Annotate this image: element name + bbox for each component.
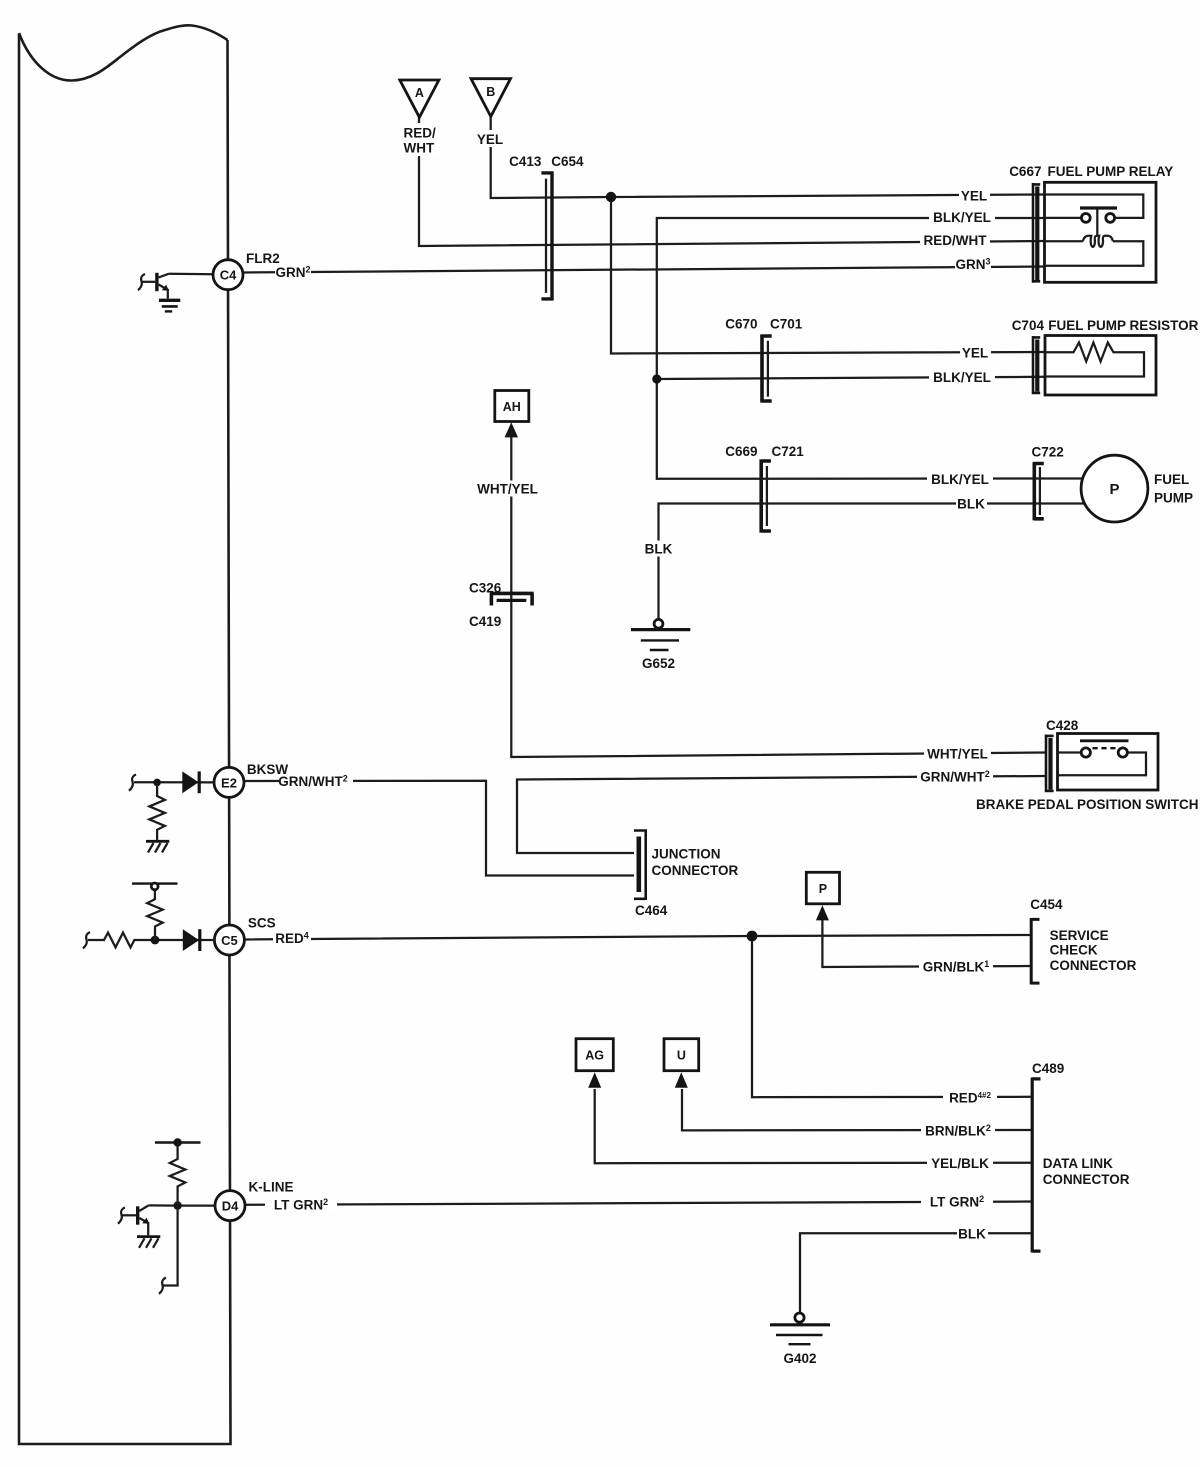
svg-text:BLK/YEL: BLK/YEL — [933, 370, 991, 385]
wire BLK/YEL branch to fuel pump resistor — [657, 377, 1045, 379]
wire LT GRN2 from D4 to data link connector — [246, 1202, 1032, 1205]
wire (E2 input stub) — [134, 781, 157, 783]
wire label GRN/WHT2 (brake switch) — [917, 769, 993, 785]
triangle connector B — [471, 79, 511, 117]
svg-text:C4: C4 — [220, 268, 237, 283]
svg-text:C701: C701 — [770, 317, 803, 332]
svg-text:B: B — [486, 85, 495, 99]
wire label BLK (DLC) — [957, 1226, 988, 1242]
continuation hook (C5 wire end) — [83, 932, 90, 948]
connector C704 bracket — [1033, 336, 1040, 394]
wire label WHT/YEL (AH wire) — [474, 481, 541, 497]
svg-text:BRN/BLK2: BRN/BLK2 — [925, 1123, 991, 1139]
svg-text:GRN3: GRN3 — [955, 257, 990, 273]
wire GRN/BLK1 from P arrow to service check connector — [822, 919, 1031, 967]
junction dot YEL — [606, 192, 616, 202]
svg-text:YEL: YEL — [962, 346, 988, 361]
pin E2 — [214, 767, 244, 797]
svg-text:A: A — [415, 86, 424, 100]
box AG with arrow — [576, 1039, 613, 1088]
svg-text:C326: C326 — [469, 580, 502, 595]
pin C5 — [214, 925, 244, 955]
transistor Q2 at pin D4 — [118, 1205, 178, 1235]
wire YEL/BLK from AG arrow to data link connector — [595, 1089, 1032, 1163]
svg-text:U: U — [677, 1049, 686, 1063]
supply rail bar with contact circle (C5 pull-up) — [132, 882, 178, 884]
svg-text:PUMP: PUMP — [1154, 491, 1193, 506]
wire D4 to junction — [178, 1204, 216, 1206]
ECU control unit box (torn top edge) — [19, 25, 228, 80]
wire label YEL (relay) — [959, 188, 990, 204]
svg-text:GRN2: GRN2 — [275, 265, 310, 281]
wire from D4 junction down to continuation hook — [164, 1206, 178, 1286]
wire label RED4#2 — [943, 1090, 997, 1106]
svg-text:SERVICE: SERVICE — [1050, 928, 1109, 943]
wire RED branch down to data link connector — [752, 936, 1032, 1097]
svg-text:C704: C704 — [1012, 318, 1045, 333]
wire label BRN/BLK2 — [921, 1123, 995, 1139]
svg-text:CONNECTOR: CONNECTOR — [1050, 958, 1137, 973]
wire label RED/WHT (relay) — [920, 232, 990, 248]
hatched ground below Q2 — [137, 1237, 160, 1248]
wire label GRN/WHT2 (at E2) — [279, 775, 353, 790]
wire label RED4 (at C5) — [273, 930, 311, 946]
connector C670/C701 (bar pair) — [762, 334, 772, 402]
continuation hook (D4 branch end) — [159, 1278, 166, 1294]
wire WHT/YEL from AH arrow down to brake pedal switch — [511, 437, 1045, 757]
svg-text:P: P — [819, 882, 827, 896]
ground (3-bar) below Q1 — [159, 300, 180, 311]
svg-text:WHT/YEL: WHT/YEL — [927, 747, 988, 762]
svg-text:LT GRN2: LT GRN2 — [274, 1197, 328, 1213]
wire label WHT/YEL (brake switch) — [924, 746, 991, 762]
svg-text:JUNCTION: JUNCTION — [652, 847, 721, 862]
svg-text:D4: D4 — [222, 1199, 239, 1214]
svg-text:SCS: SCS — [248, 916, 276, 931]
wire label BLK (to G652) — [643, 541, 674, 557]
wire BLK from data link connector to ground G402 — [800, 1233, 1032, 1313]
connector C669/C721 (bar pair) — [761, 459, 771, 532]
hatched ground below R1 — [146, 841, 169, 852]
svg-text:C670: C670 — [725, 317, 757, 332]
continuation hook (E2 wire end) — [129, 775, 136, 791]
svg-text:AH: AH — [503, 400, 521, 414]
wire label GRN/BLK1 — [919, 959, 993, 975]
junction dot BLK/YEL — [652, 374, 661, 383]
svg-text:CHECK: CHECK — [1050, 942, 1098, 957]
data link connector C489 bracket — [1032, 1078, 1040, 1253]
svg-text:CONNECTOR: CONNECTOR — [652, 863, 739, 878]
svg-text:C419: C419 — [469, 614, 501, 629]
wire RED4 from C5 to service check connector — [244, 935, 1031, 940]
svg-text:E2: E2 — [221, 775, 237, 790]
svg-text:GRN/WHT2: GRN/WHT2 — [920, 769, 990, 785]
svg-text:BRAKE PEDAL POSITION SWITCH: BRAKE PEDAL POSITION SWITCH — [976, 797, 1199, 812]
fuel pump motor P — [1081, 455, 1148, 522]
wire GRN2 from C4 to fuel pump relay — [244, 267, 1046, 273]
connector C326/C419 (horizontal bar pair) — [490, 593, 534, 605]
connector C722 (bar pair) — [1034, 462, 1044, 521]
wire label BLK/YEL (relay) — [929, 209, 995, 225]
svg-text:AG: AG — [585, 1049, 604, 1063]
svg-text:YEL/BLK: YEL/BLK — [931, 1156, 989, 1171]
svg-text:RED/: RED/ — [404, 126, 437, 141]
fuel pump relay box — [1045, 182, 1157, 282]
wire label BLK/YEL (pump) — [927, 471, 993, 487]
svg-text:CONNECTOR: CONNECTOR — [1043, 1172, 1130, 1187]
svg-text:BLK/YEL: BLK/YEL — [933, 210, 991, 225]
svg-text:LT GRN2: LT GRN2 — [930, 1194, 984, 1210]
wire YEL branch from junction down to fuel pump resistor — [611, 197, 1045, 354]
wire GRN/WHT2 from junction connector to brake pedal switch — [517, 776, 1045, 853]
wire BRN/BLK2 from U arrow to data link connector — [682, 1089, 1032, 1130]
resistor R3 pull-up above C5 junction — [147, 890, 163, 940]
resistor R1 below E2 junction — [149, 782, 165, 840]
wire label RED/WHT (from A) — [401, 123, 441, 156]
junction dot RED — [747, 931, 758, 942]
chassis ground G652 — [631, 619, 690, 650]
wire label BLK (pump) — [956, 496, 987, 512]
svg-text:C489: C489 — [1032, 1061, 1064, 1076]
supply rail bar with dot (D4 pull-up) — [155, 1141, 201, 1143]
svg-text:C413: C413 — [509, 154, 542, 169]
svg-text:C721: C721 — [772, 444, 805, 459]
diode D1 to E2 — [157, 781, 214, 783]
wire GRN/WHT2 from E2 to junction connector — [244, 781, 634, 876]
svg-text:C464: C464 — [635, 903, 668, 918]
box P with arrow — [806, 872, 839, 920]
svg-text:K-LINE: K-LINE — [249, 1180, 294, 1195]
svg-text:C722: C722 — [1032, 445, 1064, 460]
svg-text:G402: G402 — [783, 1351, 816, 1366]
box AH with arrow — [495, 391, 529, 438]
svg-text:GRN/WHT2: GRN/WHT2 — [278, 774, 348, 790]
svg-text:RED/WHT: RED/WHT — [924, 233, 988, 248]
wire label YEL (from B) — [476, 130, 505, 147]
svg-text:FUEL PUMP RELAY: FUEL PUMP RELAY — [1048, 164, 1174, 179]
junction dot E2 input — [153, 779, 161, 787]
svg-text:FLR2: FLR2 — [246, 251, 280, 266]
svg-text:C5: C5 — [221, 933, 238, 948]
svg-text:C669: C669 — [725, 444, 757, 459]
wire label LT GRN2 (DLC) — [921, 1194, 993, 1210]
svg-text:FUEL PUMP RESISTOR: FUEL PUMP RESISTOR — [1048, 318, 1198, 333]
svg-text:FUEL: FUEL — [1154, 472, 1189, 487]
connector C413/C654 (bar pair) — [541, 172, 553, 300]
svg-text:YEL: YEL — [961, 189, 987, 204]
wire label GRN2 at C4 — [275, 264, 311, 281]
svg-text:BLK: BLK — [645, 542, 673, 557]
triangle connector A — [400, 80, 439, 117]
resistor R4 pull-up above D4 junction — [170, 1143, 186, 1206]
wire label BLK/YEL (resistor) — [929, 369, 995, 385]
wire BLK/YEL from relay down to fuel pump — [657, 218, 1087, 479]
transistor Q1 at pin C4 — [138, 273, 214, 299]
svg-text:WHT: WHT — [404, 141, 435, 156]
wire BLK from fuel pump to ground G652 — [659, 504, 1088, 620]
connector C667 bracket — [1033, 183, 1040, 283]
junction dot C5 input — [151, 936, 160, 945]
diode D2 to C5 — [155, 939, 215, 941]
wire RED/WHT from triangle A down, through C413/C654, to relay — [419, 117, 1045, 246]
junction dot D4 — [173, 1201, 181, 1209]
wire label YEL/BLK — [927, 1155, 993, 1171]
resistor R2 (C5 input, horizontal) — [88, 933, 155, 948]
chassis ground G402 — [770, 1313, 830, 1344]
svg-text:BLK: BLK — [957, 497, 985, 512]
junction connector C464 — [634, 829, 646, 900]
svg-text:BLK: BLK — [958, 1227, 986, 1242]
svg-text:C428: C428 — [1046, 718, 1079, 733]
svg-text:RED4: RED4 — [275, 931, 309, 947]
svg-text:WHT/YEL: WHT/YEL — [477, 482, 538, 497]
wire YEL from triangle B down, through C413/C654, to relay — [491, 117, 1045, 199]
pin D4 — [215, 1191, 245, 1221]
svg-text:C454: C454 — [1030, 897, 1063, 912]
fuel pump resistor box — [1045, 336, 1156, 396]
svg-text:BLK/YEL: BLK/YEL — [931, 472, 989, 487]
svg-text:C667: C667 — [1009, 164, 1041, 179]
wire label GRN3 (relay) — [955, 256, 991, 272]
brake pedal position switch box — [1058, 734, 1159, 791]
box U with arrow — [664, 1039, 699, 1088]
pin C4 — [213, 260, 243, 290]
svg-text:YEL: YEL — [477, 132, 503, 147]
service check connector C454 bracket — [1031, 918, 1039, 985]
svg-text:P: P — [1109, 481, 1119, 498]
svg-text:DATA LINK: DATA LINK — [1043, 1156, 1113, 1171]
wire label LT GRN2 (at D4) — [265, 1197, 337, 1213]
wire label YEL (resistor) — [960, 345, 991, 361]
svg-text:G652: G652 — [642, 656, 675, 671]
svg-text:C654: C654 — [551, 154, 584, 169]
svg-text:GRN/BLK1: GRN/BLK1 — [923, 959, 990, 975]
connector C428 bracket — [1046, 735, 1054, 793]
